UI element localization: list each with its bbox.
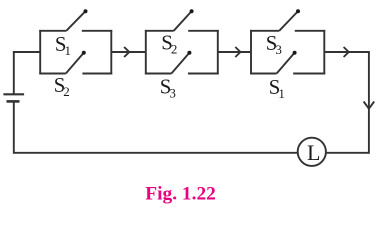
switch S3 blade bbox=[279, 12, 297, 31]
right rail wire (down) bbox=[368, 52, 370, 154]
wire block 3 output to right rail bbox=[324, 51, 370, 53]
current direction arrow 4 (down) bbox=[364, 102, 375, 109]
wire battery positive to switch bank input bbox=[13, 51, 40, 53]
switch S2 blade bbox=[174, 12, 191, 31]
switch S2 fixed wire left (bottom branch) bbox=[39, 73, 66, 75]
switch block 3 left rail bbox=[250, 30, 252, 75]
switch S1 blade bbox=[66, 12, 84, 31]
switch S3 fixed wire left (bottom branch) bbox=[145, 73, 172, 75]
svg-text:2: 2 bbox=[171, 41, 178, 56]
svg-text:1: 1 bbox=[278, 86, 285, 101]
svg-text:1: 1 bbox=[65, 43, 72, 58]
svg-text:2: 2 bbox=[63, 84, 70, 99]
switch S1 contact dot bbox=[84, 9, 88, 13]
svg-text:Fig. 1.22: Fig. 1.22 bbox=[145, 184, 216, 205]
bottom rail wire left segment (lamp to battery) bbox=[14, 152, 298, 154]
svg-text:3: 3 bbox=[169, 85, 176, 100]
switch S3 contact dot bbox=[296, 9, 300, 13]
switch block 3 right rail bbox=[323, 30, 325, 75]
switch S3 blade bbox=[171, 54, 188, 74]
switch S3 contact dot bbox=[187, 51, 191, 55]
svg-text:L: L bbox=[307, 140, 320, 165]
switch S2 blade bbox=[66, 54, 83, 74]
switch S3 fixed wire right (top branch) bbox=[295, 30, 325, 32]
switch S3 fixed wire left (top branch) bbox=[250, 30, 279, 32]
battery cell bbox=[3, 51, 24, 154]
wire block 1 output to block 2 input bbox=[111, 51, 146, 53]
switch S1 fixed wire right (top branch) bbox=[82, 30, 112, 32]
current direction arrow 2 bbox=[235, 47, 240, 57]
current direction arrow 1 bbox=[124, 47, 129, 57]
current direction arrow 3 bbox=[344, 47, 349, 57]
switch S1 fixed wire right (bottom branch) bbox=[293, 73, 325, 75]
switch S2 fixed wire right (bottom branch) bbox=[82, 73, 112, 75]
bottom rail wire right segment (right rail to lamp) bbox=[326, 152, 369, 154]
wire block 2 output to block 3 input bbox=[218, 51, 251, 53]
switch block 1 right rail bbox=[110, 30, 112, 75]
svg-text:3: 3 bbox=[275, 42, 282, 57]
switch block 2 right rail bbox=[217, 30, 219, 75]
switch S2 fixed wire right (top branch) bbox=[188, 30, 219, 32]
switch S1 fixed wire left (top branch) bbox=[39, 30, 66, 32]
switch S2 fixed wire left (top branch) bbox=[145, 30, 174, 32]
switch block 2 left rail bbox=[145, 30, 147, 75]
switch S1 blade bbox=[277, 54, 294, 74]
lamp U1 circle bbox=[298, 138, 326, 166]
switch S1 contact dot bbox=[293, 51, 297, 55]
switch S2 contact dot bbox=[82, 51, 86, 55]
switch S1 fixed wire left (bottom branch) bbox=[250, 73, 277, 75]
switch block 1 left rail bbox=[39, 30, 41, 75]
switch S3 fixed wire right (bottom branch) bbox=[188, 73, 219, 75]
switch S2 contact dot bbox=[190, 9, 194, 13]
